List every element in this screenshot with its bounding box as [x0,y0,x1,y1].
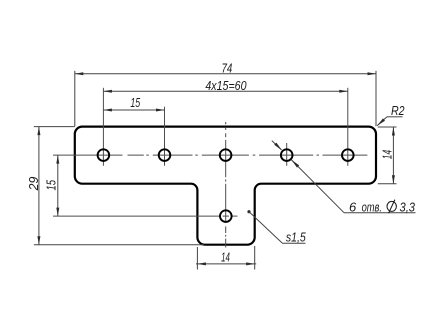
extension/centerline vertical hole 2 [164,107,166,166]
dimension 14 bottom [196,246,256,270]
centerline horizontal lower hole [53,215,238,217]
hole 1 [98,149,110,161]
dimension 14 right [378,127,397,184]
centerline horizontal hole row [53,154,367,156]
svg-text:s1,5: s1,5 [286,230,307,245]
hole 3 [220,149,232,161]
R2 leader [377,117,403,126]
svg-text:отв.: отв. [362,199,382,214]
svg-text:74: 74 [222,60,233,75]
s1,5 leader [247,210,305,243]
svg-text:29: 29 [26,177,41,192]
extension/centerline vertical hole 5 [347,88,349,166]
plate outline [75,127,376,245]
leader 6 holes dia 3,3 [272,141,416,213]
centerline vertical stem [225,122,227,248]
centerline vertical hole 4 [286,143,288,166]
dimension 29 left [34,127,204,245]
dimension 15 top [103,109,164,112]
svg-text:4x15=60: 4x15=60 [205,78,247,93]
hole 5 [342,149,354,161]
svg-text:15: 15 [130,95,140,110]
svg-text:6: 6 [349,199,357,214]
svg-text:14: 14 [380,150,395,159]
hole 2 [159,149,171,161]
dimension 4x15=60 [103,90,347,93]
svg-text:14: 14 [221,250,230,265]
hole 4 [281,149,293,161]
diameter symbol [387,200,396,214]
svg-text:15: 15 [43,179,58,190]
dimension 74 [75,71,376,127]
svg-text:3,3: 3,3 [400,199,416,214]
hole 6 lower [220,210,232,222]
extension/centerline vertical hole 1 [102,88,104,166]
svg-text:R2: R2 [391,103,405,118]
dimension 15 left [56,155,59,216]
